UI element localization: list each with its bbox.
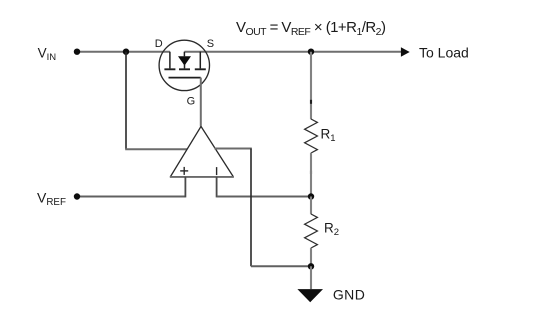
op-amp U1 triangle base bbox=[170, 176, 234, 178]
wire R1 to feedback node bbox=[310, 153, 312, 197]
wire op-amp V- supply horizontal bbox=[214, 148, 251, 150]
wire MOSFET source to load bbox=[184, 51, 401, 53]
transistor Q1 source terminal bbox=[199, 52, 201, 69]
transistor Q1 pass FET circle bbox=[159, 40, 209, 90]
svg-text:R2: R2 bbox=[324, 220, 339, 238]
svg-text:S: S bbox=[207, 38, 214, 50]
arrowhead to load bbox=[401, 47, 410, 57]
svg-text:VOUT = VREF × (1+R1/R2): VOUT = VREF × (1+R1/R2) bbox=[236, 19, 386, 38]
wire feedback horizontal to divider tap bbox=[217, 196, 311, 198]
wire op-amp V- supply vertical to ground rail bbox=[250, 149, 252, 267]
wire op-amp V+ supply horizontal into op-amp bbox=[125, 148, 187, 150]
node feedback junction dot bbox=[308, 193, 314, 199]
wire VREF stub up to plus input bbox=[184, 177, 186, 198]
svg-text:VIN: VIN bbox=[38, 45, 57, 63]
wire ground node to GND symbol bbox=[310, 266, 312, 289]
wire feedback node down to R2 bbox=[310, 197, 312, 215]
transistor Q1 body arrow bbox=[183, 52, 185, 57]
svg-text:R1: R1 bbox=[321, 126, 336, 144]
wire minus input stub down bbox=[216, 177, 218, 198]
op-amp U1 triangle left edge bbox=[170, 126, 201, 176]
node tick R1 bottom lead bbox=[310, 171, 312, 174]
svg-text:GND: GND bbox=[333, 286, 365, 302]
node VIN terminal dot bbox=[74, 49, 80, 55]
op-amp U1 triangle right edge bbox=[201, 126, 233, 176]
node junction dot VIN branch bbox=[123, 49, 129, 55]
node VREF terminal dot bbox=[74, 193, 80, 199]
wire VIN horizontal to MOSFET drain bbox=[77, 51, 170, 53]
svg-text:G: G bbox=[187, 96, 196, 108]
transistor Q1 gate plate bbox=[169, 77, 201, 79]
transistor Q1 drain terminal bbox=[169, 52, 171, 69]
node ground junction dot bbox=[308, 263, 314, 269]
wire VREF horizontal bbox=[77, 196, 185, 198]
wire output node down to R1 bbox=[310, 52, 312, 120]
resistor R1 bbox=[305, 119, 318, 153]
svg-text:VREF: VREF bbox=[37, 190, 66, 209]
svg-text:To Load: To Load bbox=[419, 45, 469, 61]
svg-text:D: D bbox=[155, 38, 163, 50]
node junction dot output bbox=[308, 49, 314, 55]
op-amp plus input marker bbox=[180, 170, 188, 172]
op-amp minus input marker bbox=[216, 167, 218, 175]
transistor Q1 body contact bar bbox=[179, 68, 190, 70]
wire ground rail horizontal bbox=[251, 265, 311, 267]
wire R2 to ground node bbox=[310, 248, 312, 266]
wire gate to op-amp output bbox=[200, 78, 202, 127]
wire op-amp V+ supply vertical from VIN junction bbox=[125, 52, 127, 150]
ground symbol bbox=[297, 289, 323, 302]
node tick R1 top lead bbox=[310, 100, 312, 104]
resistor R2 bbox=[305, 214, 318, 248]
